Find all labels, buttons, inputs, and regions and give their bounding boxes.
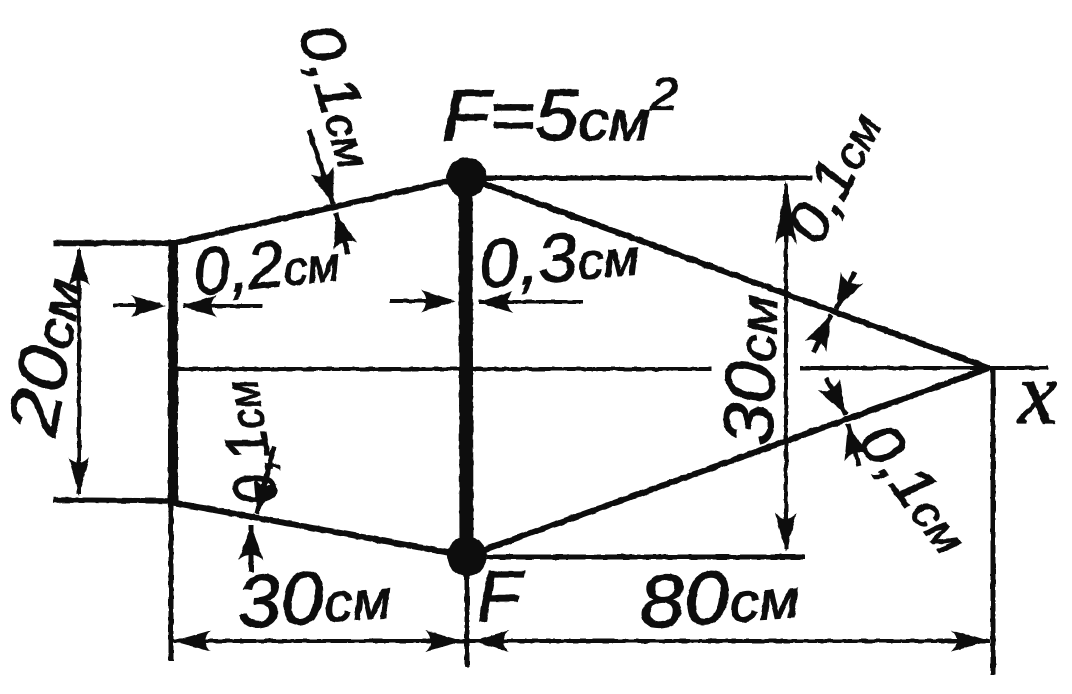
right extension line below x point [991, 368, 996, 675]
callout C: 0,1cm on bottom-left skin [251, 447, 274, 572]
svg-text:20см: 20см [0, 271, 97, 441]
bottom-left horizontal edge [53, 500, 172, 501]
top flange node circle F=5cm2 [447, 158, 487, 198]
arrowhead bottom dim far-right (right) [951, 630, 989, 651]
top-left horizontal edge [53, 240, 172, 246]
bottom-right extension line [487, 555, 805, 560]
0.2cm arrow right shaft [183, 304, 262, 308]
middle wall (0.3cm web) [466, 175, 467, 558]
arrowhead 0.3cm right-pointing [421, 290, 456, 312]
svg-text:F: F [477, 557, 525, 637]
callout D: 0,1cm on bottom-right skin [826, 378, 859, 466]
30cm right dimension line [784, 184, 788, 549]
arrowhead 0.3cm left-pointing [478, 291, 513, 313]
svg-text:30см: 30см [234, 550, 393, 644]
svg-text:x: x [1016, 346, 1057, 443]
20cm dimension line [77, 250, 81, 494]
svg-text:0,2см: 0,2см [190, 220, 343, 309]
arrowhead 20cm top (up) [69, 247, 90, 286]
svg-text:80см: 80см [636, 550, 801, 644]
middle wall extension line down [465, 558, 470, 667]
centerline left segment [168, 367, 712, 371]
0.3cm arrow left shaft [390, 299, 451, 303]
left wall (0.2cm web) [168, 240, 178, 505]
left wall extension line down [169, 505, 174, 661]
arrowhead 0.2cm left-pointing [182, 295, 217, 317]
svg-text:0,1см: 0,1см [203, 376, 291, 511]
centerline right segment to x axis [800, 366, 1048, 370]
top-left skin (0.1cm) [170, 177, 466, 244]
bottom dimension line [172, 639, 990, 643]
arrowhead 30cm right dim bottom (down) [775, 513, 797, 552]
bottom-right skin (0.1cm) [467, 368, 989, 556]
top-right skin (0.1cm) [466, 177, 989, 368]
top-right extension line [486, 176, 812, 181]
svg-text:30см: 30см [709, 294, 792, 447]
svg-text:F=5см2: F=5см2 [442, 68, 678, 156]
callout B: 0,1cm on top-right skin [814, 272, 855, 352]
svg-text:0,1см: 0,1см [286, 16, 393, 175]
arrowhead bottom dim mid-left (left) [471, 630, 509, 651]
arrowhead bottom dim far-left (left) [173, 630, 211, 651]
0.2cm arrow left shaft [113, 303, 160, 307]
svg-text:0,3см: 0,3см [476, 213, 642, 303]
svg-text:0,1см: 0,1см [846, 411, 985, 566]
bottom-left skin (0.1cm) [170, 502, 467, 556]
arrowhead 30cm right dim top (up) [775, 181, 797, 245]
0.3cm arrow right shaft [479, 300, 583, 304]
arrowhead 0.2cm right-pointing [131, 295, 166, 317]
arrowhead 20cm bottom (down) [69, 457, 90, 496]
bottom flange node circle F [447, 536, 487, 576]
callout A: 0,1cm on top-left skin [309, 130, 348, 254]
arrowhead bottom dim mid-right (right) [425, 630, 463, 651]
